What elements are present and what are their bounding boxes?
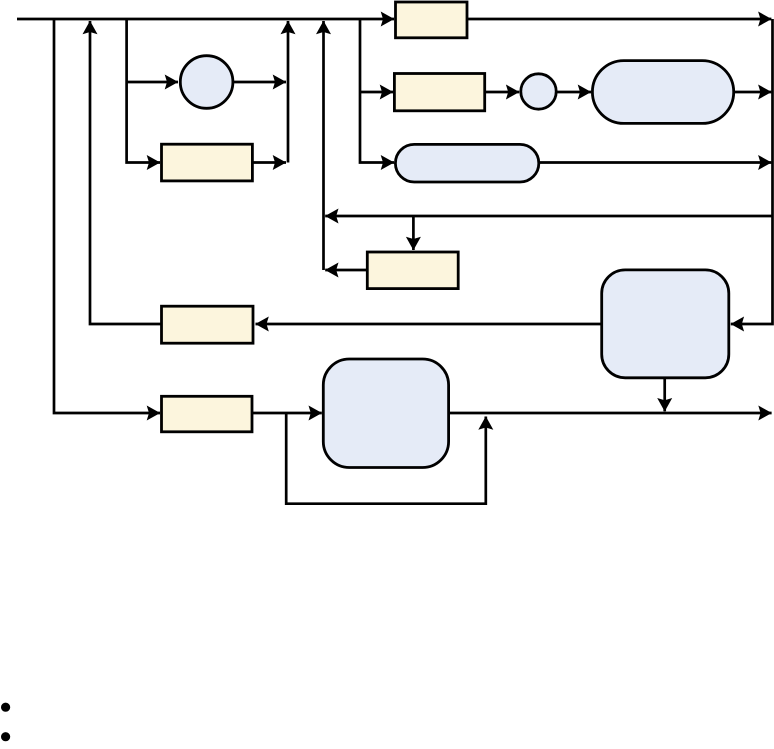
wire right rail down into square Q1	[731, 19, 773, 324]
wire mid return line from right rail to merge line	[325, 215, 772, 218]
wire box B3 output to merge line	[325, 269, 367, 272]
wire stadium S2 output to right rail	[539, 161, 772, 164]
square Q1 rounded square	[602, 270, 729, 378]
circle C2 small	[521, 74, 556, 109]
box B5 yellow box	[162, 396, 253, 432]
wire box T output to right rail	[467, 18, 771, 21]
box B4 yellow box	[162, 306, 254, 343]
wire branch down to stadium S2 row	[360, 19, 394, 163]
wire branch down to box B1	[127, 19, 160, 163]
bullet list item 1	[1, 703, 10, 712]
wire circle C1 output to merge line	[234, 81, 286, 84]
wire left outer: down from top line, to box B5	[54, 19, 160, 413]
wire branch to circle C1	[127, 81, 178, 84]
wire box B1 output to merge line	[252, 161, 286, 164]
wire box B5 output into square Q2	[252, 412, 322, 415]
box B3 yellow box	[367, 252, 458, 289]
wire second merge line up into top line	[322, 21, 325, 270]
wire square Q2 output to right edge	[449, 412, 772, 415]
wire branch to box B2	[360, 91, 393, 94]
stadium S2 rounded pill	[395, 144, 538, 182]
circle C1	[180, 56, 233, 109]
wire merge line up into top line	[287, 21, 290, 163]
stadium S1 rounded pill	[592, 61, 733, 124]
wire square Q1 down into bottom line	[663, 378, 666, 411]
bullet list item 2	[1, 732, 10, 741]
wire box B2 output into circle C2	[485, 91, 520, 94]
square Q2 rounded square	[323, 359, 448, 468]
wire stadium S1 output to right rail	[734, 91, 772, 94]
box B2 yellow box	[394, 74, 484, 111]
box T top yellow box	[396, 2, 468, 38]
wire feedback loop under square Q2	[286, 413, 486, 504]
wire from box B4 left, up into top line	[90, 21, 162, 324]
wire top main line into box T	[17, 18, 394, 21]
wire square Q1 output into box B4	[256, 323, 602, 326]
wire circle C2 output into stadium S1	[557, 91, 591, 94]
wire drop down into box B3	[412, 216, 415, 250]
box B1 yellow box	[162, 144, 253, 181]
